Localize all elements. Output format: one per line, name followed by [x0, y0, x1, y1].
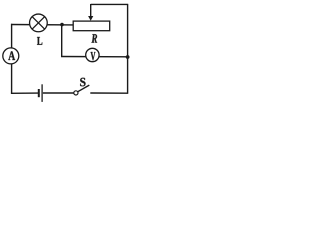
label S	[80, 78, 85, 87]
label L	[37, 37, 42, 45]
wire: top right horizontal from slider to right wire	[91, 3, 129, 5]
wire: right vertical	[127, 4, 129, 93]
label R	[92, 34, 98, 42]
ammeter A	[3, 48, 19, 64]
lamp L	[30, 14, 48, 32]
switch S pivot	[74, 91, 78, 95]
wire: battery to switch pivot	[43, 92, 74, 94]
battery: tall thin positive plate	[41, 84, 43, 102]
voltmeter V	[86, 48, 99, 61]
wire: vertical from node A down to voltmeter branch	[61, 25, 63, 57]
wire: left vertical through ammeter	[11, 24, 13, 94]
battery: short thick negative plate	[38, 89, 40, 97]
wire: top horizontal from left corner through lamp to rheostat left terminal	[11, 24, 74, 26]
rheostat R body	[73, 21, 110, 31]
node B: junction dot voltmeter branch to right wire	[126, 55, 130, 59]
wire: switch to bottom right corner	[90, 92, 127, 94]
wire: voltmeter horizontal branch	[61, 56, 128, 58]
rheostat slider arrow	[88, 4, 93, 21]
switch S lever	[78, 85, 90, 92]
wire: bottom left horizontal to battery	[11, 92, 38, 94]
node A: junction dot after lamp	[60, 23, 64, 27]
